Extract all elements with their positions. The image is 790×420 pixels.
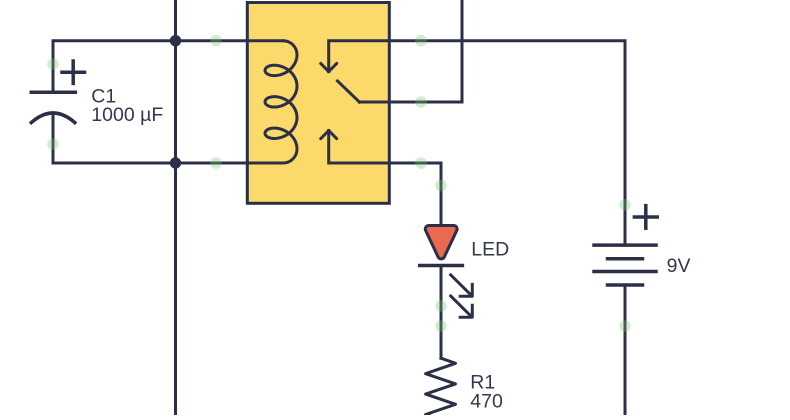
svg-text:470: 470: [470, 391, 503, 413]
svg-text:LED: LED: [471, 238, 509, 260]
svg-text:9V: 9V: [667, 255, 691, 277]
svg-text:1000 µF: 1000 µF: [91, 104, 163, 126]
